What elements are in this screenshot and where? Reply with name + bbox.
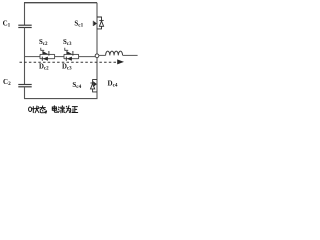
glyph 状 (32, 106, 39, 113)
glyph 态 (40, 106, 45, 113)
svg-text:Sc1: Sc1 (74, 19, 83, 28)
svg-text:Sc3: Sc3 (63, 39, 72, 47)
capacitor C2 (18, 85, 31, 87)
wire left rail lower (C2 to bottom) (24, 87, 26, 99)
svg-text:Dc2: Dc2 (39, 64, 49, 72)
switch Sc3 (top branch, with gate) (64, 48, 79, 59)
wire output after inductor (123, 54, 138, 56)
wire right vertical rail (96, 3, 98, 99)
svg-text:Sc2: Sc2 (39, 39, 48, 47)
capacitor C1 (18, 25, 31, 27)
glyph 0 (29, 107, 32, 112)
wire bottom horizontal (24, 98, 98, 100)
wire left rail middle (C1 to C2) (24, 28, 26, 85)
wire left rail upper (to C1) (24, 3, 26, 25)
svg-text:Dc4: Dc4 (108, 80, 118, 89)
glyph 为 (66, 106, 71, 113)
dashed current path line (20, 61, 117, 63)
svg-text:C2: C2 (3, 78, 11, 87)
svg-text:C1: C1 (3, 19, 11, 28)
svg-text:Dc3: Dc3 (62, 64, 72, 72)
inductor L (106, 51, 123, 55)
wire top horizontal (24, 2, 97, 4)
gate bar (92, 21, 94, 26)
dashed current path arrowhead (117, 59, 124, 64)
wire middle: rail to Sc2 (24, 56, 40, 58)
switch Sc1 (IGBT on right rail, top) (93, 21, 97, 26)
switch Sc2 (top branch, with gate) (40, 48, 55, 59)
glyph 流 (58, 106, 64, 113)
emitter triangle (94, 21, 97, 26)
wire middle: Sc2 to Sc3 (55, 56, 64, 58)
diode Dc2 (bottom branch) (40, 57, 55, 61)
glyph 正 (72, 107, 78, 113)
glyph 电 (52, 106, 57, 113)
switch Sc4 (IGBT on right rail, bottom) (93, 81, 97, 86)
diode of Sc1 (antiparallel, right side) (97, 17, 104, 29)
diode of Sc4 (antiparallel, left side) (90, 80, 97, 92)
glyph comma (45, 111, 48, 113)
diode Dc3 (bottom branch) (64, 57, 79, 61)
caption: 0状态, 电流为正 (drawn as vector strokes) (29, 106, 78, 113)
svg-text:Sc4: Sc4 (72, 81, 81, 90)
node A (phase output node circle) (95, 54, 99, 58)
wire output to inductor (99, 54, 106, 56)
wire middle: Sc3 to node (79, 56, 96, 58)
